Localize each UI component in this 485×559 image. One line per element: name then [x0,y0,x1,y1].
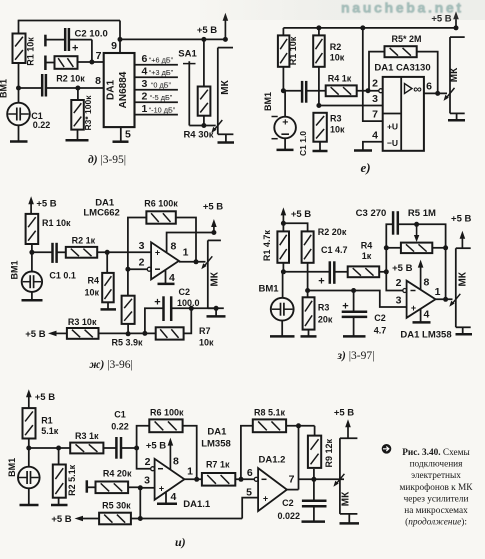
svg-text:4: 4 [171,491,177,503]
svg-text:5: 5 [125,129,131,141]
caption ж) [3-96] [90,359,133,371]
label +6 дБ (д) [149,56,174,65]
ground pin 4 (и) [157,503,177,506]
wire BM1 row right to pin 8 (д) [46,87,104,89]
svg-text:4: 4 [169,272,175,284]
svg-text:С1 1.0: С1 1.0 [298,131,308,156]
capacitor C1 (и) 0.22 [116,437,121,459]
node R4 bottom junction (д) [201,123,206,128]
node pin2 junction (ж) [125,267,130,272]
resistor R5 (и) 30k [99,513,131,525]
label C2 (и) [278,498,301,521]
wire R4 top lead (д) [203,39,205,86]
label -10 дБ (д) [149,106,176,115]
microphone BM1 (з) [271,272,294,337]
svg-text:R3: R3 [318,303,330,313]
label pin 3 (ж) [139,240,145,252]
svg-text:R3 10к: R3 10к [68,317,97,327]
svg-text:1к: 1к [362,251,372,261]
svg-text:Рис. 3.40. Схемы: Рис. 3.40. Схемы [402,448,470,458]
label R3 10к (ж) [68,317,97,327]
wire output (з) [436,298,453,300]
svg-text:R6 100к: R6 100к [150,408,184,418]
resistor R4 (з) 1k [348,266,380,277]
svg-text:R2: R2 [330,42,342,52]
ground R3 (е) [313,150,328,153]
svg-text:R1: R1 [41,416,53,426]
op-amp DA1.2 (и) [258,468,287,511]
power +5 В (и) [26,389,55,408]
svg-text:R4 20к: R4 20к [103,469,132,479]
wire top rail (е) [283,28,456,36]
label pin 8 (д) [95,75,101,87]
IC DA1 AN6884 (д) [104,53,135,127]
ground BM1 (д) [10,140,28,143]
wire stub R2 left (д) [45,56,54,71]
resistor R1 (е) 10k [278,35,290,66]
ground MK (и) [340,514,360,524]
label R3 (е) [330,114,345,135]
svg-text:C2: C2 [179,287,191,297]
svg-text:10к: 10к [330,125,345,135]
wire stub C2 left (д) [45,35,65,47]
ground R3 (з) [301,335,317,338]
power +5 В (з) [281,207,312,223]
label R2 20к (з) [318,227,347,237]
wire R2 bottom (и) [58,498,60,505]
wire row to C1 (ж) [32,251,53,253]
wire R2 top lead (е) [318,28,320,36]
wire C1 to R4 (з) [334,271,347,273]
ground MK (е) [448,113,465,120]
svg-text:1: 1 [187,466,193,478]
label pin 1 (и) [187,466,193,478]
wire pin 3 lead (и) [140,487,154,489]
svg-text:ВМ1: ВМ1 [263,92,273,111]
svg-text:4: 4 [372,130,378,142]
wire pin 1 output (д) [135,114,178,116]
svg-text:R3: R3 [330,114,342,124]
wire R5 right lead (з) [432,247,445,249]
svg-text:10к: 10к [84,288,99,298]
wire C1 to R4 (е) [306,90,326,92]
wire pin 9 (д) [119,21,121,54]
label R1 4.7к (з) [262,230,272,262]
wire R8 to output vertical (и) [298,426,300,490]
node pin3 junction (и) [138,485,143,490]
ground R4 (ж) [101,308,117,311]
tap arrow into MK (ж) [201,256,212,269]
wire rail to pin 7 (е) [363,28,383,121]
label pin 8 (ж) [171,241,177,253]
label pin 6 (е) [426,81,432,93]
label pin 2 (е) [372,78,378,90]
svg-text:1: 1 [142,103,148,115]
svg-text:+5 В: +5 В [35,392,55,403]
svg-text:“+6 дБ”: “+6 дБ” [149,56,174,65]
watermark naucheba.net [200,0,485,20]
svg-text:+5 В: +5 В [197,25,217,36]
wire R3 bottom (д) [77,130,79,141]
ground BM1 (и) [20,504,39,507]
svg-text:3: 3 [372,93,378,105]
svg-text:R5* 2М: R5* 2М [391,34,421,44]
label R8 5.1к (и) [254,408,286,418]
capacitor C2 (з) 4.7 [342,291,368,337]
label DA1 CA3130 (е) [374,63,430,74]
wire C3 left vertical (з) [386,224,405,290]
node R5/pin3 junction (и) [138,516,143,521]
caption е) [360,160,370,175]
label R3 (з) [318,303,333,325]
label R3* 100к (д) [83,95,93,131]
svg-text:1: 1 [435,286,441,298]
svg-text:+: + [72,43,78,55]
microphone BM1 (ж) [22,252,42,300]
svg-text:+5 В: +5 В [291,209,311,220]
power +5 В MK (и) [334,408,354,439]
svg-text:DA1 LM358: DA1 LM358 [400,330,451,341]
svg-text:DA1.2: DA1.2 [259,455,286,466]
svg-text:R6 100к: R6 100к [144,199,178,209]
svg-text:R2 5.1к: R2 5.1к [67,464,77,496]
wire R5 left lead (е) [369,52,385,91]
svg-text:+: + [159,484,164,494]
capacitor C3 (з) 270 [393,211,398,235]
wire C2 left lead (ж) [145,308,164,333]
resistor R1 (ж) 10k [26,214,39,244]
svg-text:∞: ∞ [413,82,422,96]
node +5V junction (ж) [211,230,216,235]
label LM358 (и) [201,439,231,450]
svg-text:3: 3 [142,78,148,90]
svg-text:0.22: 0.22 [33,120,51,130]
label R3 1к (и) [75,431,99,441]
wire C1 right (и) [121,447,137,449]
power +5 В (ж) [28,196,56,214]
svg-text:+5 В: +5 В [334,408,354,419]
wire pin 5 (д) [120,127,122,142]
power +5 В (е) [431,11,458,28]
svg-text:C1: C1 [114,410,126,420]
svg-text:3: 3 [144,475,150,487]
label R5 30к (и) [102,501,131,511]
wire R2 top lead (и) [58,448,60,465]
svg-text:C2: C2 [282,498,294,508]
svg-text:(продолжение):: (продолжение): [405,517,467,528]
resistor R6 (ж) 100k [146,211,175,223]
svg-text:+5 В: +5 В [25,329,45,340]
svg-text:МК: МК [210,271,221,286]
label C1 1.0 (е) [298,131,308,156]
power +5 В pin8 (и) [146,441,166,452]
svg-text:8: 8 [424,277,430,289]
svg-text:R8 5.1к: R8 5.1к [254,408,286,418]
svg-text:5: 5 [246,486,252,498]
label C1 (и) [111,410,129,432]
label +3 дБ (д) [149,68,174,77]
label pin 4 (ж) [169,272,175,284]
resistor R2 (е) 10k [313,35,325,66]
svg-text:R3* 100к: R3* 100к [83,95,93,131]
capacitor C1 (е) 1.0 [302,81,306,103]
svg-text:ВМ1: ВМ1 [259,284,280,295]
svg-text:7: 7 [289,474,295,486]
svg-text:2: 2 [145,456,151,468]
label pin 9 (д) [111,40,117,52]
label pin 8 (з) [424,277,430,289]
pin 2 inversion circle (ж) [147,267,151,271]
node BM1/R1 junction (д) [16,86,21,91]
wire pin2 lead (ж) [128,268,148,270]
label pin 3 (д) [142,78,148,90]
power +5 В pin8 (ж) [203,202,223,233]
svg-text:3: 3 [396,295,402,307]
label C2 plus (д) [72,43,78,55]
label C1 0.1 (ж) [49,271,76,281]
svg-text:4: 4 [142,65,148,77]
wire pin 4 (з) [420,309,422,322]
svg-text:R5 30к: R5 30к [102,501,131,511]
resistor R3 (е) 10k [313,113,326,142]
op-amp DA1.1 (и) [155,459,185,500]
wire MK line (и) [340,438,358,514]
wire C3 right lead (з) [398,224,446,299]
svg-text:R4 30к: R4 30к [183,130,213,141]
svg-text:4.7: 4.7 [374,326,387,336]
label pin 4 (е) [372,130,378,142]
pin 2 inversion circle DA1.1 (и) [151,467,155,471]
svg-text:“-10 дБ”: “-10 дБ” [149,106,176,115]
svg-text:C1 4.7: C1 4.7 [321,245,348,255]
node pin7 junction (д) [89,60,94,65]
wire R3 bottom (з) [308,330,310,337]
svg-text:SA1: SA1 [178,49,197,60]
wire pin 6 output (д) [135,64,178,66]
node BM1/R1/C1 junction (ж) [29,250,34,255]
label MK (ж) [210,271,221,286]
svg-text:6: 6 [426,81,432,93]
node BM1/R1 junction (е) [281,88,286,93]
label BM1 (ж) [10,260,20,279]
node pin9/rail junction (д) [118,37,123,42]
label R2 5.1к (и) [67,464,77,496]
wire pin 4 lead (е) [363,142,383,151]
svg-text:ВМ1: ВМ1 [0,79,9,98]
resistor R1 (з) 4.7k [277,231,289,262]
wire SA1 bottom row (д) [189,125,215,127]
wire R4 left stub (и) [87,480,96,492]
op-amp DA1 (ж) [151,242,179,279]
wire R1 top (з) [282,223,284,231]
label DA1 (ж) [95,198,115,209]
wire R5 bottom (ж) [127,324,129,334]
resistor R6 (и) 100k [149,419,182,432]
svg-text:C3 270: C3 270 [356,208,387,219]
node C1 right junction (и) [134,446,139,451]
label pin 1 (д) [142,103,148,115]
svg-text:+: + [154,297,160,309]
ground MK (д) [218,134,235,142]
svg-text:+: + [318,276,324,288]
svg-text:R5 3.9к: R5 3.9к [111,338,143,348]
label R9 12к (и) [324,438,334,467]
resistor R3 (и) 1k [70,443,103,454]
capacitor C1 (ж) 0.1 [53,243,57,263]
label R2 (е) [330,42,345,63]
label pin 3 (з) [396,295,402,307]
capacitor C2 (ж) 100.0 [164,296,172,321]
node R5 wiper junction (з) [414,222,419,227]
wire C1 to R2 (ж) [57,251,66,253]
label R4 (з) [361,240,373,261]
label R6 100к (и) [150,408,184,418]
ground C2 (з) [343,335,366,338]
label BM1 (е) [263,92,273,111]
wire R5 top lead (ж) [127,269,129,296]
wire R5 right lead (е) [417,52,438,94]
label pin 8 (и) [173,456,179,468]
node R8/R9 junction (и) [296,423,301,428]
wire R6 right vertical (и) [183,426,197,480]
wire R4 top lead (ж) [106,252,108,273]
svg-text:5.1к: 5.1к [41,426,59,436]
label C2 (з) [374,313,387,336]
resistor R8 (и) 5.1k [253,419,286,432]
wire pin 8 +5V arrow (з) [418,260,424,290]
wire R3 bottom (е) [319,142,321,151]
wire R1 bottom (ж) [31,244,33,252]
svg-text:−U: −U [387,138,398,148]
svg-text:8: 8 [171,241,177,253]
svg-text:R4 1к: R4 1к [328,74,352,84]
label C3 270 (з) [356,208,387,219]
svg-text:0.022: 0.022 [278,511,301,521]
svg-text:+5 В: +5 В [203,202,223,213]
wire R4 bottom lead (д) [203,116,205,126]
resistor R4 (д) 30k [198,87,211,116]
node C3/R5 left junction (з) [384,245,389,250]
power +5 В (д) [197,13,228,40]
node pin7 rail junction (е) [360,25,365,30]
label -U (е) [387,138,398,148]
label BM1 (з) [259,284,280,295]
label pin 5 (д) [125,129,131,141]
resistor R5 (з) 1M potentiometer [401,224,432,253]
wire output (ж) [179,261,206,263]
label R6 100к (ж) [144,199,178,209]
label DA1 LM358 (з) [400,330,451,341]
switch SA1 (д) [183,61,196,125]
wire +5V rail (д) [120,38,225,40]
label R5* 2М (е) [391,34,421,44]
svg-text:R1 4.7к: R1 4.7к [262,230,272,262]
svg-text:2: 2 [372,78,378,90]
wire output row to MK (и) [299,478,345,480]
svg-text:R2 20к: R2 20к [318,227,347,237]
resistor R1 (д) 10k [13,34,26,64]
svg-text:R5 1М: R5 1М [408,208,436,219]
svg-text:и): и) [175,535,186,549]
wire R2 right to pin7 (д) [78,61,104,63]
node BM1/R1 junction (з) [281,269,286,274]
node C2 left junction (ж) [142,331,147,336]
svg-text:+U: +U [387,122,398,132]
caption и) [175,535,186,549]
wire pin 6 output (е) [424,92,447,94]
caption д) [3-95] [88,154,126,166]
label pin 6 (и) [247,467,253,479]
wire R3 to R7 row (ж) [99,332,156,334]
svg-text:R1 10к: R1 10к [42,218,71,228]
wire output DA1.2 (и) [287,489,299,491]
tap arrow into MK (з) [449,294,460,307]
svg-text:DA1.1: DA1.1 [183,499,211,510]
microphone BM1 (д) [7,88,30,142]
svg-text:МК: МК [220,79,231,94]
svg-text:DA1 СА3130: DA1 СА3130 [374,63,430,74]
wire R1 bottom (з) [282,263,284,272]
pin 2 inversion circle (е) [379,89,383,93]
resistor R2 (д) 10k [55,56,78,69]
node pin6/R8 junction (и) [239,477,244,482]
svg-text:+: + [155,248,160,258]
label pin 4 (и) [171,491,177,503]
svg-text:МК: МК [341,491,352,506]
wire pin 5 lead (и) [242,498,258,519]
wire R1 bottom (е) [282,67,284,91]
svg-text:10к: 10к [330,53,345,63]
wire MK line (з) [456,248,471,327]
resistor R3 (ж) 10k [67,328,99,339]
label 0 дБ (д) [151,81,172,90]
node BM1/R1 junction (и) [26,446,31,451]
label pin 2 (з) [396,277,402,289]
label DA1.1 (и) [183,499,211,510]
power +5 В pin8 (з) [392,263,412,274]
svg-text:ж) |3-96|: ж) |3-96| [90,359,133,371]
label pin 3 (е) [372,93,378,105]
wire R6 right vertical (ж) [176,218,196,262]
label R4 (ж) [84,276,99,298]
resistor R5 (ж) 3.9k [122,296,135,324]
power +5 В R5 (и) [51,514,99,525]
node R4 top junction (д) [201,37,206,42]
svg-text:6: 6 [247,467,253,479]
wire to R2 top (з) [283,223,307,231]
resistor R2 (и) 5.1k [53,465,66,498]
svg-text:9: 9 [111,40,117,52]
svg-text:+5 В: +5 В [146,441,166,452]
caption з) [3-97] [337,350,375,362]
svg-text:+: + [411,303,416,313]
svg-text:2: 2 [396,277,402,289]
label pin 6 (д) [142,53,148,65]
ground BM1 (з) [270,335,295,338]
label pin 7 (е) [372,109,378,121]
svg-text:+5 В: +5 В [36,199,56,210]
svg-text:+5 В: +5 В [392,263,412,274]
node +5V junction (д) [223,37,228,42]
resistor R3* (д) 100k [71,100,84,130]
node C2 right junction (ж) [214,306,219,311]
label DA1 (д) [106,80,117,100]
capacitor C2 (д) 10.0 [65,28,69,51]
label C2 10.0 (д) [75,29,108,40]
label BM1 (д) [0,79,9,98]
node pin2/R5 junction (е) [366,88,371,93]
svg-text:+: + [263,494,268,504]
